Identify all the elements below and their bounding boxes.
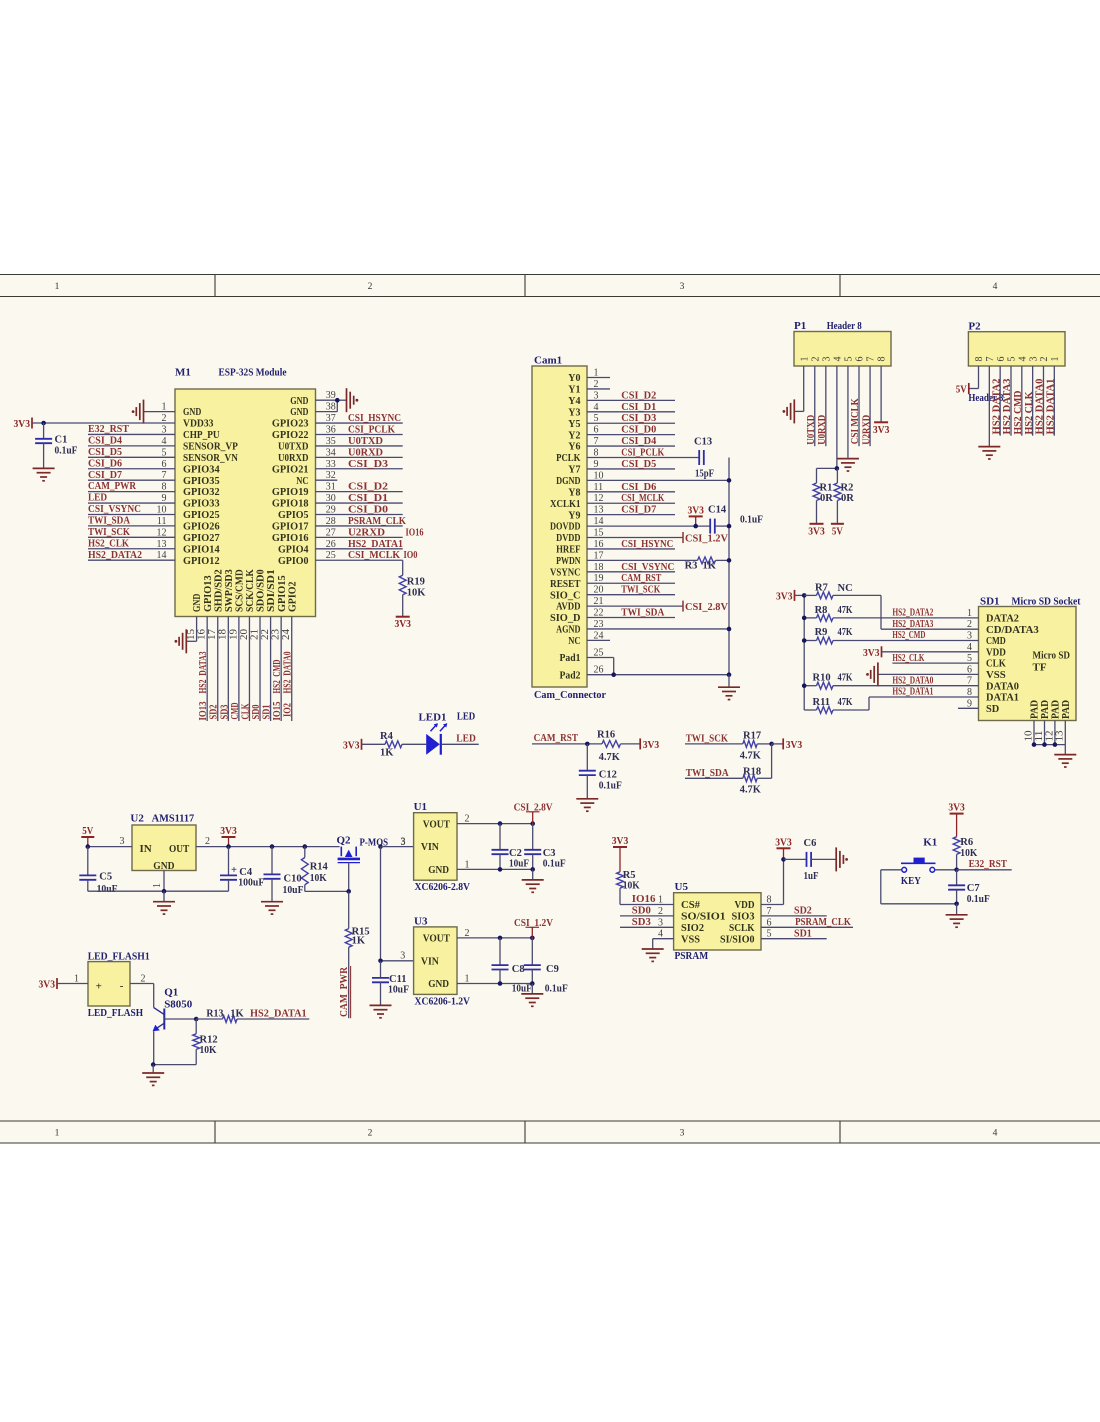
svg-text:9: 9 [967, 698, 972, 709]
wire+net TWI_SCK to M1 pin12 [88, 527, 175, 538]
svg-text:12: 12 [594, 493, 604, 504]
svg-text:PAD: PAD [1061, 700, 1072, 719]
ground below C10 [261, 902, 283, 914]
svg-text:R6: R6 [960, 837, 973, 848]
svg-text:34: 34 [326, 447, 336, 458]
svg-text:5: 5 [1007, 357, 1018, 362]
svg-text:10K: 10K [310, 873, 328, 884]
svg-text:NC: NC [296, 475, 308, 487]
svg-text:CSI_D5: CSI_D5 [621, 458, 656, 470]
svg-text:P2: P2 [968, 321, 981, 333]
svg-text:SD: SD [986, 703, 999, 715]
svg-text:GPIO4: GPIO4 [278, 543, 309, 555]
svg-text:R17: R17 [743, 731, 761, 742]
svg-text:Q1: Q1 [164, 986, 178, 998]
svg-text:TWI_SDA: TWI_SDA [88, 516, 131, 527]
wire Cam1 Pad1 [587, 648, 614, 675]
svg-text:25: 25 [326, 550, 336, 561]
ground below C11 [370, 1005, 392, 1017]
wire M1 pin2 VDD33 to 3V3 [32, 413, 175, 424]
svg-text:2: 2 [162, 413, 167, 424]
svg-text:CSI_HSYNC: CSI_HSYNC [621, 538, 673, 550]
svg-text:4: 4 [967, 642, 972, 653]
svg-text:3V3: 3V3 [39, 980, 56, 991]
svg-text:8: 8 [877, 357, 888, 362]
wire+net HS2_DATA0 at SD1 pin7 [833, 675, 979, 686]
wire U5 pin8 VDD to 3V3 [761, 859, 784, 905]
svg-text:23: 23 [594, 619, 604, 630]
svg-text:GPIO0: GPIO0 [278, 555, 309, 567]
svg-text:10uF: 10uF [512, 983, 532, 994]
memory U5 PSRAM [674, 881, 761, 962]
wire Cam1 pin21 AVDD to CSI_2.8V [587, 596, 683, 607]
svg-text:M1: M1 [175, 367, 191, 379]
svg-text:CSI_PCLK: CSI_PCLK [621, 447, 664, 459]
power 3V3 feeding pull-up bus [776, 590, 804, 603]
wire Q2 drain to U1 VIN [381, 846, 414, 848]
junction C10 tap [270, 844, 275, 849]
wire+net E32_RST [957, 858, 1012, 870]
power 3V3 at TWI pullups [772, 738, 803, 751]
wire+net HS2 DATA0 at P2 pin2 [1034, 366, 1046, 436]
svg-text:3V3: 3V3 [643, 740, 660, 751]
svg-text:3: 3 [594, 390, 599, 401]
wire+net HS2_DATA1 at SD1 pin8 [869, 687, 979, 698]
svg-text:13: 13 [1055, 731, 1066, 742]
svg-text:16: 16 [594, 539, 604, 550]
svg-text:19: 19 [228, 629, 239, 640]
wire Cam1 pin14 DOVDD [587, 516, 729, 527]
wire M1 pin22 down [260, 617, 273, 722]
svg-text:GPIO5: GPIO5 [278, 509, 309, 521]
svg-text:3V3: 3V3 [948, 803, 965, 814]
svg-text:12: 12 [1044, 731, 1055, 742]
svg-text:GPIO18: GPIO18 [272, 498, 309, 510]
wire P2 pin7 to ground [988, 366, 990, 446]
resistor R10 47K [804, 673, 853, 689]
svg-text:10: 10 [157, 504, 167, 515]
svg-text:VDD: VDD [735, 899, 755, 911]
ground below C1 [33, 468, 55, 480]
svg-text:1: 1 [152, 883, 163, 888]
wire+net E32_RST to M1 pin3 [88, 424, 175, 435]
capacitor C2 10uF [492, 824, 530, 870]
wire+net HS2_DATA1 at M1 pin26 [316, 538, 404, 550]
svg-text:2: 2 [967, 619, 972, 630]
svg-text:CSI_D4: CSI_D4 [621, 435, 656, 447]
wire+net HS2_CLK to M1 pin13 [88, 538, 175, 549]
svg-text:C6: C6 [804, 838, 817, 849]
svg-text:6: 6 [594, 425, 599, 436]
svg-text:U2RXD: U2RXD [860, 415, 872, 445]
svg-text:7: 7 [767, 906, 772, 917]
svg-text:TF: TF [1033, 662, 1047, 674]
wire camera bypass bus [728, 458, 730, 675]
wire Q1 emitter to ground [154, 1031, 197, 1064]
power 3V3 at U2 output [220, 826, 237, 847]
wire+net HS2_CLK at SD1 pin5 [892, 653, 978, 664]
svg-text:U0TXD: U0TXD [348, 435, 383, 447]
svg-text:AMS1117: AMS1117 [152, 813, 195, 825]
svg-text:11: 11 [1034, 731, 1045, 742]
wire+net CSI_D0 at M1 pin29 [316, 504, 403, 516]
svg-text:PAD: PAD [1030, 700, 1041, 719]
svg-text:31: 31 [326, 482, 336, 493]
wire M1 pins 39/38 GND [316, 390, 347, 412]
svg-text:NC: NC [568, 635, 580, 647]
svg-text:Pad1: Pad1 [560, 652, 581, 664]
resistor R1 0R [813, 468, 833, 523]
svg-text:R3: R3 [685, 561, 698, 572]
power 5V at U2 input [81, 826, 94, 847]
svg-text:0.1uF: 0.1uF [543, 858, 566, 869]
svg-text:GPIO27: GPIO27 [183, 532, 220, 544]
resistor R5 10K [617, 870, 641, 905]
ground at M1 pin15 [175, 629, 187, 653]
wire SD1 shield pads [1023, 721, 1065, 745]
svg-text:HS2_DATA3: HS2_DATA3 [892, 619, 933, 630]
resistor R4 1K [362, 731, 427, 758]
svg-text:10uF: 10uF [97, 884, 118, 895]
wire+net CSI_D5 to M1 pin5 [88, 447, 175, 458]
svg-text:GPIO23: GPIO23 [272, 418, 309, 430]
wire Cam1 pin15 DVDD to CSI_1.2V [587, 528, 683, 539]
frame top strip [0, 275, 1100, 297]
svg-text:SD1: SD1 [794, 927, 812, 939]
svg-text:CSI_D3: CSI_D3 [348, 458, 389, 470]
wire Cam1 pin23 AGND to bus [587, 619, 729, 630]
opto LED_FLASH1 [88, 951, 150, 1020]
svg-text:R14: R14 [310, 862, 329, 873]
ground below U2 [153, 891, 175, 914]
wire+net CSI_D7 to M1 pin7 [88, 470, 175, 481]
ground at P2 pin7 [978, 447, 1000, 459]
ground below C7 [946, 904, 968, 927]
wire+net CAM_RST [532, 732, 602, 744]
svg-text:2: 2 [1039, 357, 1050, 362]
junction Q1 emitter ground [151, 1062, 156, 1067]
svg-text:C10: C10 [284, 874, 302, 885]
junction bus R10 [802, 683, 807, 688]
svg-text:XC6206-2.8V: XC6206-2.8V [415, 881, 471, 893]
svg-text:3: 3 [821, 357, 832, 362]
svg-text:GPIO19: GPIO19 [272, 486, 309, 498]
svg-text:38: 38 [326, 402, 336, 413]
wire+net CSI_D4 at Cam1 pin7 [587, 435, 675, 447]
resistor R8 47K [804, 605, 853, 621]
svg-text:R11: R11 [813, 697, 831, 708]
svg-text:C14: C14 [708, 505, 727, 516]
svg-text:4: 4 [993, 1129, 998, 1139]
junction Q1 base [194, 1017, 199, 1022]
svg-text:DOVDD: DOVDD [550, 521, 581, 533]
svg-text:3: 3 [680, 282, 685, 292]
wire+net CSI_VSYNC at Cam1 pin18 [587, 561, 675, 573]
wire M1 pin1 to ground [144, 402, 175, 413]
svg-text:8: 8 [974, 357, 985, 362]
junction C4 tap [226, 844, 231, 849]
junction pad10 [1032, 742, 1037, 747]
svg-text:CMD: CMD [986, 635, 1006, 647]
svg-text:11: 11 [157, 516, 167, 527]
svg-text:23: 23 [271, 629, 282, 640]
svg-text:10: 10 [1023, 731, 1034, 742]
power 3V3 below R19 [394, 617, 411, 631]
transistor Q2 P-MOS [337, 835, 406, 863]
power 5V at P2 pin8 [956, 383, 969, 396]
svg-text:5: 5 [844, 357, 855, 362]
junction bus Pad2 [727, 672, 732, 677]
svg-text:20: 20 [239, 629, 250, 640]
junction C7 bottom [954, 902, 959, 907]
svg-text:LED_FLASH: LED_FLASH [88, 1007, 144, 1019]
svg-text:5V: 5V [832, 526, 843, 537]
svg-text:25: 25 [594, 648, 604, 659]
wire+net IO16 at U5 pin1 [620, 893, 674, 906]
wire K1 right to junction [935, 869, 957, 871]
svg-text:1: 1 [658, 895, 663, 906]
wire P1 pin5 to ground [847, 366, 849, 458]
wire P1 pin4 to R1/R2 [817, 366, 837, 468]
wire+net HS2 CMD at P2 pin4 [1012, 366, 1024, 436]
svg-text:14: 14 [594, 516, 604, 527]
junction C2 top [498, 821, 503, 826]
svg-text:HS2_CMD: HS2_CMD [892, 630, 925, 641]
junction U2 GND rail [162, 889, 167, 894]
svg-text:C9: C9 [546, 964, 559, 975]
resistor R18 4.7K [740, 744, 772, 796]
wire U2 GND pin1 [152, 871, 164, 892]
svg-text:CSI_D4: CSI_D4 [88, 435, 122, 446]
wire+net CSI_PCLK at M1 pin36 [316, 423, 403, 435]
svg-text:Y2: Y2 [568, 429, 581, 441]
junction TWI 3V3 [769, 742, 774, 747]
svg-text:R5: R5 [623, 870, 636, 881]
svg-text:HS2_DATA1: HS2_DATA1 [348, 538, 403, 550]
wire M1 pin15 to ground [186, 617, 197, 642]
wire+net CSI_MCLK at Cam1 pin12 [587, 492, 675, 504]
svg-text:IO0: IO0 [404, 549, 418, 561]
svg-text:VDD33: VDD33 [183, 418, 214, 430]
svg-text:R13: R13 [206, 1009, 223, 1020]
svg-text:P1: P1 [794, 320, 806, 332]
wire+net SD2 at U5 pin7 [761, 905, 827, 917]
wire+net LED to M1 pin9 [88, 493, 175, 504]
svg-text:HS2_DATA0: HS2_DATA0 [892, 675, 933, 686]
wire+net HS2 DATA2 at P2 pin6 [990, 366, 1002, 436]
svg-text:ESP-32S Module: ESP-32S Module [219, 367, 287, 379]
svg-text:CSI_D2: CSI_D2 [621, 389, 656, 401]
LED LED1 [419, 711, 476, 755]
svg-text:GPIO33: GPIO33 [183, 498, 220, 510]
junction M1 pin39 [335, 398, 340, 403]
svg-text:13: 13 [157, 539, 167, 550]
svg-text:3V3: 3V3 [776, 591, 793, 602]
svg-text:U1: U1 [414, 801, 427, 813]
wire+net CAM_RST at Cam1 pin19 [587, 572, 675, 584]
svg-text:-: - [120, 980, 124, 992]
svg-text:3: 3 [120, 836, 125, 847]
svg-text:U0RXD: U0RXD [348, 446, 383, 458]
svg-text:3V3: 3V3 [343, 740, 360, 751]
svg-text:0.1uF: 0.1uF [545, 983, 568, 994]
svg-text:C4: C4 [239, 867, 253, 878]
svg-text:GPIO17: GPIO17 [272, 521, 309, 533]
svg-text:SIO3: SIO3 [732, 911, 755, 923]
resistor R6 10K [953, 837, 978, 870]
svg-text:VOUT: VOUT [423, 818, 451, 830]
svg-text:CSI_D7: CSI_D7 [621, 504, 656, 516]
junction bus PWDN [727, 558, 732, 563]
svg-text:19: 19 [594, 573, 604, 584]
junction C3 top [530, 821, 535, 826]
svg-text:U0TXD: U0TXD [278, 441, 309, 453]
svg-text:47K: 47K [838, 673, 854, 684]
wire+net CSI_D3 at M1 pin33 [316, 458, 403, 470]
svg-text:3: 3 [967, 631, 972, 642]
svg-text:+: + [96, 981, 102, 993]
svg-text:47K: 47K [838, 697, 854, 708]
svg-text:15: 15 [594, 528, 604, 539]
svg-text:PAD: PAD [1051, 700, 1062, 719]
junction R14 tap [303, 844, 308, 849]
wire+net CSI_D6 to M1 pin6 [88, 458, 175, 469]
svg-text:LED: LED [88, 493, 107, 504]
svg-text:SO/SIO1: SO/SIO1 [681, 911, 726, 923]
ground at SD1 VSS [866, 662, 878, 686]
net flag CSI_1.2V above C9 [514, 917, 553, 938]
svg-text:HS2 DATA1: HS2 DATA1 [1045, 379, 1057, 435]
wire Cam1 pin17 PWDN to R3 [587, 550, 729, 561]
op-amp U1 module M1 ESP-32S [175, 367, 316, 617]
svg-text:CAM_RST: CAM_RST [534, 732, 579, 744]
wire+net HS2 DATA3 at P2 pin5 [1001, 366, 1013, 436]
wire U2 ground rail [88, 890, 229, 892]
wire+net HS2_DATA2 at SD1 pin1 [833, 608, 979, 619]
wire+net HS2_DATA3 at SD1 pin2 [881, 619, 979, 630]
resistor R16 4.7K [597, 730, 640, 763]
svg-text:3V3: 3V3 [14, 419, 31, 430]
svg-text:NC: NC [838, 583, 853, 594]
svg-text:3V3: 3V3 [786, 740, 803, 751]
svg-text:C8: C8 [512, 964, 525, 975]
wire+net U0RXD at P1 pin3 [816, 366, 828, 446]
svg-text:CSI_VSYNC: CSI_VSYNC [621, 561, 674, 573]
svg-text:HS2_CLK: HS2_CLK [88, 538, 129, 549]
junction bus DOVDD [727, 524, 732, 529]
svg-text:8: 8 [967, 687, 972, 698]
svg-text:10uF: 10uF [509, 858, 529, 869]
svg-text:7: 7 [985, 357, 996, 362]
svg-text:6: 6 [996, 357, 1007, 362]
svg-text:Cam1: Cam1 [534, 355, 562, 367]
wire+net HS2_DATA1 at R13 [237, 1008, 309, 1020]
svg-text:10K: 10K [407, 588, 427, 599]
svg-text:PAD: PAD [1040, 700, 1051, 719]
svg-text:KEY: KEY [901, 875, 921, 887]
power 5V below R2 [831, 524, 844, 538]
power 3V3 right of R16 [640, 738, 659, 751]
junction bus top [802, 593, 807, 598]
svg-text:Y6: Y6 [568, 441, 581, 453]
svg-text:C7: C7 [967, 883, 980, 894]
wire+net CSI_D6 at Cam1 pin11 [587, 481, 675, 493]
power 3V3 above R6 [948, 803, 965, 837]
svg-text:GND: GND [428, 978, 449, 990]
svg-text:GPIO12: GPIO12 [183, 555, 220, 567]
svg-text:CSI_D5: CSI_D5 [88, 447, 122, 458]
capacitor C13 15pF [694, 437, 714, 480]
svg-text:2: 2 [368, 1129, 373, 1139]
svg-text:U3: U3 [414, 915, 428, 927]
wire+net CSI_D7 at Cam1 pin13 [587, 504, 675, 516]
svg-text:100uF: 100uF [238, 877, 264, 888]
junction E32_RST [954, 868, 959, 873]
wire+net SD0 at U5 pin2 [620, 904, 674, 917]
ground below C3 [522, 869, 544, 892]
svg-text:3: 3 [401, 836, 406, 847]
svg-text:SI/SIO0: SI/SIO0 [720, 933, 755, 945]
svg-text:3V3: 3V3 [863, 648, 880, 659]
svg-text:R9: R9 [815, 627, 828, 638]
svg-text:10K: 10K [200, 1045, 218, 1056]
ground below C12 [576, 799, 598, 811]
svg-text:LED: LED [457, 711, 475, 723]
junction C5 tap [86, 844, 91, 849]
resistor R17 4.7K [740, 731, 772, 762]
svg-text:CSI_D1: CSI_D1 [621, 401, 656, 413]
svg-text:AVDD: AVDD [556, 601, 580, 613]
junction C2 bottom [498, 867, 503, 872]
capacitor C8 10uF [492, 938, 532, 995]
wire+net SD3 at U5 pin3 [620, 916, 674, 929]
svg-text:4.7K: 4.7K [740, 784, 762, 795]
wire Cam1 pin10 DGND to bus [587, 470, 729, 481]
resistor R3 1K [685, 557, 717, 572]
junction bus R8 [802, 616, 807, 621]
svg-text:GND: GND [290, 395, 308, 407]
power 3V3 below R1 [808, 524, 825, 538]
svg-text:LED: LED [456, 732, 476, 744]
svg-text:U5: U5 [675, 881, 689, 893]
svg-text:Header 8: Header 8 [827, 320, 862, 332]
resistor R15 1K [345, 891, 369, 947]
svg-text:CSI_2.8V: CSI_2.8V [685, 601, 728, 613]
svg-text:11: 11 [594, 482, 604, 493]
wire U3 GND rail [457, 983, 532, 985]
svg-text:CSI_D0: CSI_D0 [621, 424, 656, 436]
svg-text:1uF: 1uF [804, 871, 819, 882]
svg-text:DATA0: DATA0 [986, 680, 1019, 692]
svg-text:U2RXD: U2RXD [348, 526, 385, 538]
svg-text:2: 2 [810, 357, 821, 362]
frame bottom strip [0, 1121, 1100, 1143]
svg-text:1: 1 [162, 402, 167, 413]
wire+net CSI_D4 to M1 pin4 [88, 435, 175, 446]
svg-text:16: 16 [197, 629, 208, 640]
svg-text:OUT: OUT [169, 843, 190, 855]
svg-text:Y3: Y3 [568, 406, 581, 418]
svg-text:CSI_D1: CSI_D1 [348, 492, 388, 504]
svg-text:TWI_SCK: TWI_SCK [621, 584, 660, 596]
svg-text:CD/DATA3: CD/DATA3 [986, 624, 1039, 636]
svg-text:1: 1 [74, 974, 79, 985]
svg-text:C12: C12 [599, 770, 617, 781]
wire K1 left leg [881, 870, 957, 904]
wire LED_FLASH1 pin2 to Q1 [130, 974, 154, 1008]
svg-text:15pF: 15pF [695, 469, 714, 480]
svg-text:PSRAM_CLK: PSRAM_CLK [795, 916, 851, 928]
